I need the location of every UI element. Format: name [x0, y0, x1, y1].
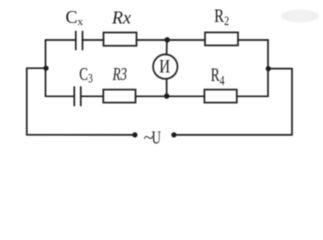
- node right junction: [266, 66, 271, 71]
- wire left source branch: [27, 68, 135, 135]
- wire cap Cx to resistor Rx: [83, 39, 104, 41]
- wire R4 to bottom-right corner: [237, 95, 268, 97]
- wire second rail left segment: [46, 95, 75, 97]
- wire galvanometer bottom lead: [166, 79, 168, 96]
- svg-text:И: И: [159, 57, 170, 78]
- svg-text:U: U: [152, 128, 161, 148]
- wire right bridge vertical: [267, 40, 269, 96]
- svg-text:C3: C3: [79, 64, 93, 86]
- wire top rail left segment: [46, 39, 76, 41]
- node top middle junction: [165, 37, 170, 42]
- resistor R4 box: [204, 90, 236, 103]
- wire galvanometer top lead: [166, 40, 168, 55]
- wire resistor Rx to junction and R2: [137, 39, 206, 41]
- node source left terminal: [132, 132, 137, 137]
- capacitor C3 plates: [74, 87, 81, 106]
- resistor R3 box: [103, 90, 135, 103]
- svg-text:Cx: Cx: [66, 7, 84, 28]
- svg-text:Rx: Rx: [111, 8, 131, 28]
- svg-text:R3: R3: [112, 64, 127, 84]
- wire left bridge vertical: [45, 40, 47, 96]
- svg-text:R2: R2: [214, 6, 229, 28]
- resistor R2 box: [205, 32, 238, 45]
- node bottom middle junction: [164, 93, 169, 98]
- wire resistor R3 to junction and R4: [136, 95, 205, 97]
- wire right source branch: [174, 69, 292, 135]
- op-amp U1 galvanometer circle: [153, 54, 177, 78]
- capacitor Cx plates: [76, 32, 83, 50]
- scan smudge top-right: [281, 10, 319, 23]
- resistor Rx box: [104, 33, 137, 46]
- svg-text:R4: R4: [211, 65, 225, 89]
- node left junction: [43, 66, 48, 71]
- wire R2 to top-right corner: [238, 39, 268, 41]
- wire cap C3 to resistor R3: [81, 95, 104, 97]
- node source right terminal: [171, 132, 176, 137]
